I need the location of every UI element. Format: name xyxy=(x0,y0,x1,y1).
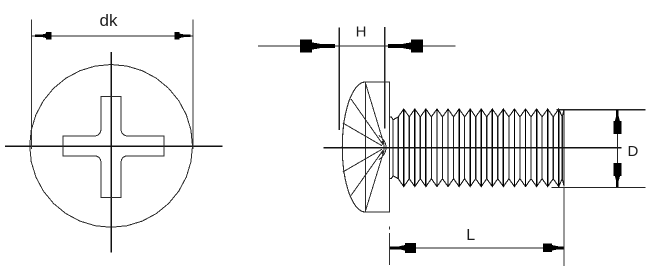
screw axis centerline (side view) xyxy=(324,147,622,149)
H arrow left (points right toward head) xyxy=(300,40,335,53)
H arrow right (points left toward head) xyxy=(388,40,423,53)
thread start dip line xyxy=(392,120,394,176)
L arrow right (points right) xyxy=(543,244,564,252)
D extension line top xyxy=(557,109,646,111)
phillips cross recess outline (top view) xyxy=(63,96,164,197)
recess tip arc inner xyxy=(382,141,385,154)
dk dimension line xyxy=(31,35,193,37)
vertical centerline (top view) xyxy=(110,52,112,253)
dk extension line left xyxy=(30,19,32,149)
D extension line bottom xyxy=(552,186,646,188)
thread crest zigzag top xyxy=(390,109,564,120)
H dimension line xyxy=(258,45,455,47)
L dimension line xyxy=(390,247,564,249)
svg-text:L: L xyxy=(466,227,475,244)
L extension line right xyxy=(563,187,565,266)
svg-text:dk: dk xyxy=(100,11,118,30)
thread flank vertical lines (crest columns) xyxy=(404,109,559,187)
dk arrow right (points right) xyxy=(174,32,190,40)
D arrow up xyxy=(613,110,621,134)
dk arrow left (points left) xyxy=(35,32,51,40)
D arrow down xyxy=(613,163,621,187)
L extension line left (below head) xyxy=(389,227,391,230)
D dimension line xyxy=(616,110,618,188)
recess tip arc outer xyxy=(379,136,386,160)
pan head outline (side view) xyxy=(365,82,389,212)
L arrow left (points left) xyxy=(390,243,416,253)
thread flank vertical lines (root columns) xyxy=(398,117,562,179)
thread crest zigzag bottom xyxy=(390,176,564,187)
dk extension line right xyxy=(192,19,194,149)
H extension line right xyxy=(384,27,386,128)
svg-text:D: D xyxy=(628,143,639,160)
horizontal centerline (top view) xyxy=(5,145,223,147)
svg-text:H: H xyxy=(356,24,367,41)
screw head top view: faceted circle outline xyxy=(30,65,193,228)
head dome/cylinder boundary line xyxy=(364,82,366,212)
H extension line left xyxy=(338,27,340,130)
thread end face xyxy=(563,110,565,186)
pan head dome arc xyxy=(342,82,365,212)
phillips recess fan lines (side view) xyxy=(343,83,384,212)
